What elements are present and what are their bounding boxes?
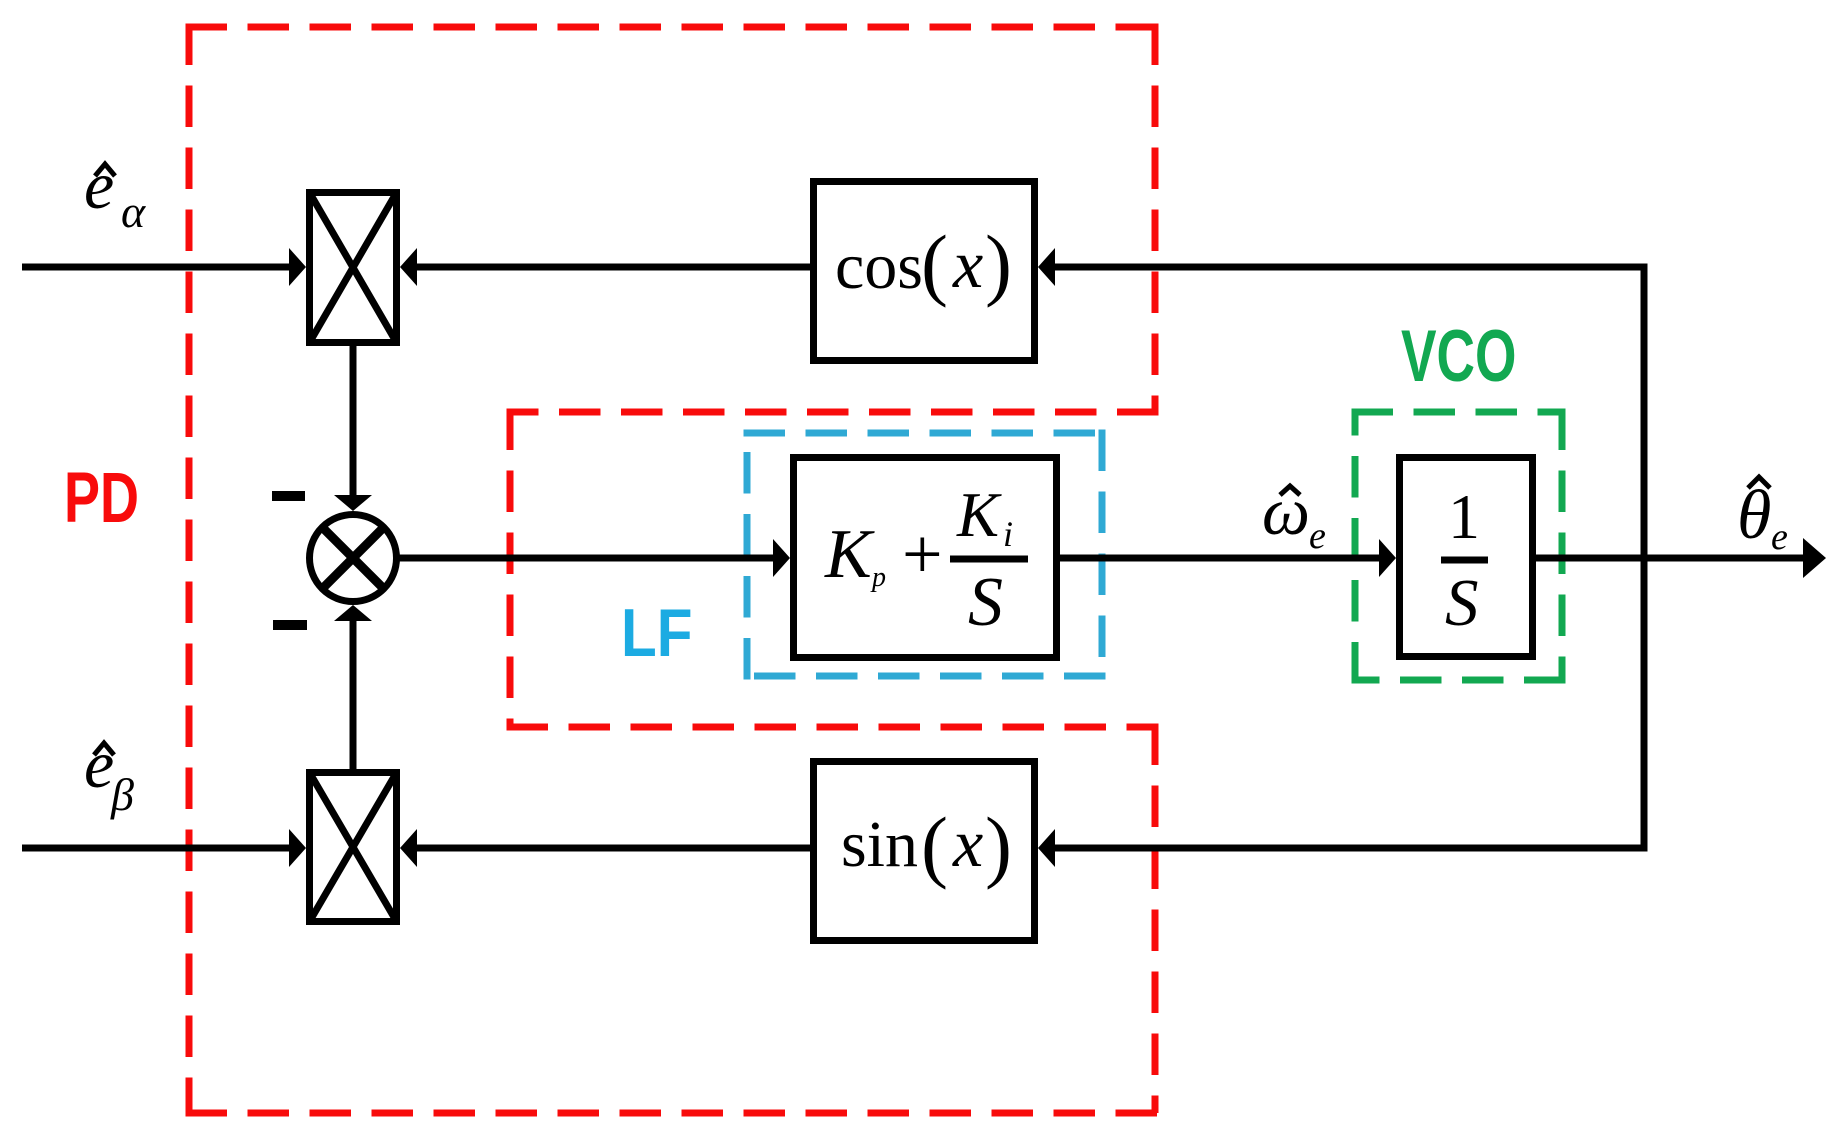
svg-text:e: e [1309,515,1326,557]
svg-text:1: 1 [1448,481,1480,552]
VCO block 1/S [1400,458,1533,657]
wire input alpha [22,264,291,271]
minus sign upper [272,491,305,501]
svg-text:PD: PD [64,459,139,538]
svg-text:(: ( [921,801,948,891]
svg-text:α: α [121,186,146,237]
multiplier M1 [310,193,397,343]
LF region dashed outline [744,430,1106,680]
wire feedback vertical [1641,264,1648,852]
svg-text:S: S [1445,566,1479,640]
svg-text:K: K [824,516,875,593]
cos block [814,182,1035,361]
label theta_e [1737,477,1788,558]
svg-text:e: e [1771,516,1788,558]
svg-text:e: e [84,726,114,802]
svg-text:): ) [985,801,1012,891]
label e_beta [84,726,134,820]
wire M2 to summer [350,620,357,769]
svg-text:β: β [110,769,134,820]
svg-text:cos: cos [835,230,923,303]
wire input beta [22,845,291,852]
wire sin to M2 [415,845,810,852]
svg-text:VCO: VCO [1401,315,1516,397]
wire feedback to cos [1053,264,1647,271]
LF block Kp+Ki/S [794,458,1057,658]
label omega_e [1262,473,1326,557]
label e_alpha [84,147,146,237]
svg-text:x: x [952,226,983,302]
sin block [814,762,1035,941]
svg-text:LF: LF [621,596,692,671]
wire M1 to summer [350,346,357,496]
wire feedback to sin [1053,845,1647,852]
wire summer to LF block [396,555,774,562]
svg-text:(: ( [921,219,948,309]
svg-text:p: p [870,562,886,593]
wire cos to M1 [415,264,810,271]
svg-text:θ: θ [1737,477,1771,554]
svg-text:K: K [956,480,1002,550]
svg-text:i: i [1003,514,1013,554]
svg-text:sin: sin [841,808,918,881]
svg-text:+: + [902,514,943,594]
VCO region dashed outline [1352,409,1566,684]
summer S1 [310,515,397,602]
svg-text:S: S [968,564,1003,641]
wire LF to VCO [1060,555,1380,562]
svg-text:ω: ω [1262,473,1310,549]
svg-text:): ) [985,219,1012,309]
svg-text:e: e [84,147,114,223]
PD region dashed outline [186,24,1159,1114]
multiplier M2 [310,773,397,922]
wire VCO to output [1536,555,1805,562]
minus sign lower [273,620,307,630]
svg-text:x: x [952,805,983,881]
